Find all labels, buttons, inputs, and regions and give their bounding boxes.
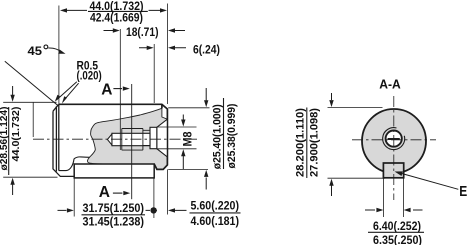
- svg-text:6.35(.250): 6.35(.250): [373, 233, 422, 245]
- svg-text:E: E: [459, 183, 467, 200]
- svg-text:5.60(.220): 5.60(.220): [191, 198, 240, 212]
- svg-text:A: A: [101, 82, 112, 99]
- svg-text:M8: M8: [183, 131, 195, 147]
- svg-text:18(.71): 18(.71): [126, 25, 159, 39]
- svg-text:ø28.56(1.124): ø28.56(1.124): [0, 107, 10, 171]
- svg-text:A-A: A-A: [379, 77, 401, 91]
- svg-text:27.900(1.098): 27.900(1.098): [308, 108, 320, 177]
- svg-text:44.0(1.732): 44.0(1.732): [11, 107, 22, 162]
- svg-text:(.020): (.020): [77, 68, 102, 82]
- svg-text:ø25.40(1.000): ø25.40(1.000): [212, 104, 224, 169]
- svg-text:31.75(1.250): 31.75(1.250): [83, 201, 145, 215]
- svg-text:6(.24): 6(.24): [193, 43, 220, 57]
- svg-text:6.40(.252): 6.40(.252): [373, 219, 421, 233]
- svg-text:4.60(.181): 4.60(.181): [191, 214, 240, 228]
- svg-text:ø25.38(0.999): ø25.38(0.999): [226, 103, 238, 168]
- svg-text:28.200(1.110): 28.200(1.110): [295, 108, 307, 177]
- svg-text:42.4(1.669): 42.4(1.669): [90, 10, 143, 24]
- svg-text:A: A: [99, 184, 110, 201]
- svg-text:31.45(1.238): 31.45(1.238): [83, 214, 145, 228]
- svg-text:45: 45: [28, 44, 43, 58]
